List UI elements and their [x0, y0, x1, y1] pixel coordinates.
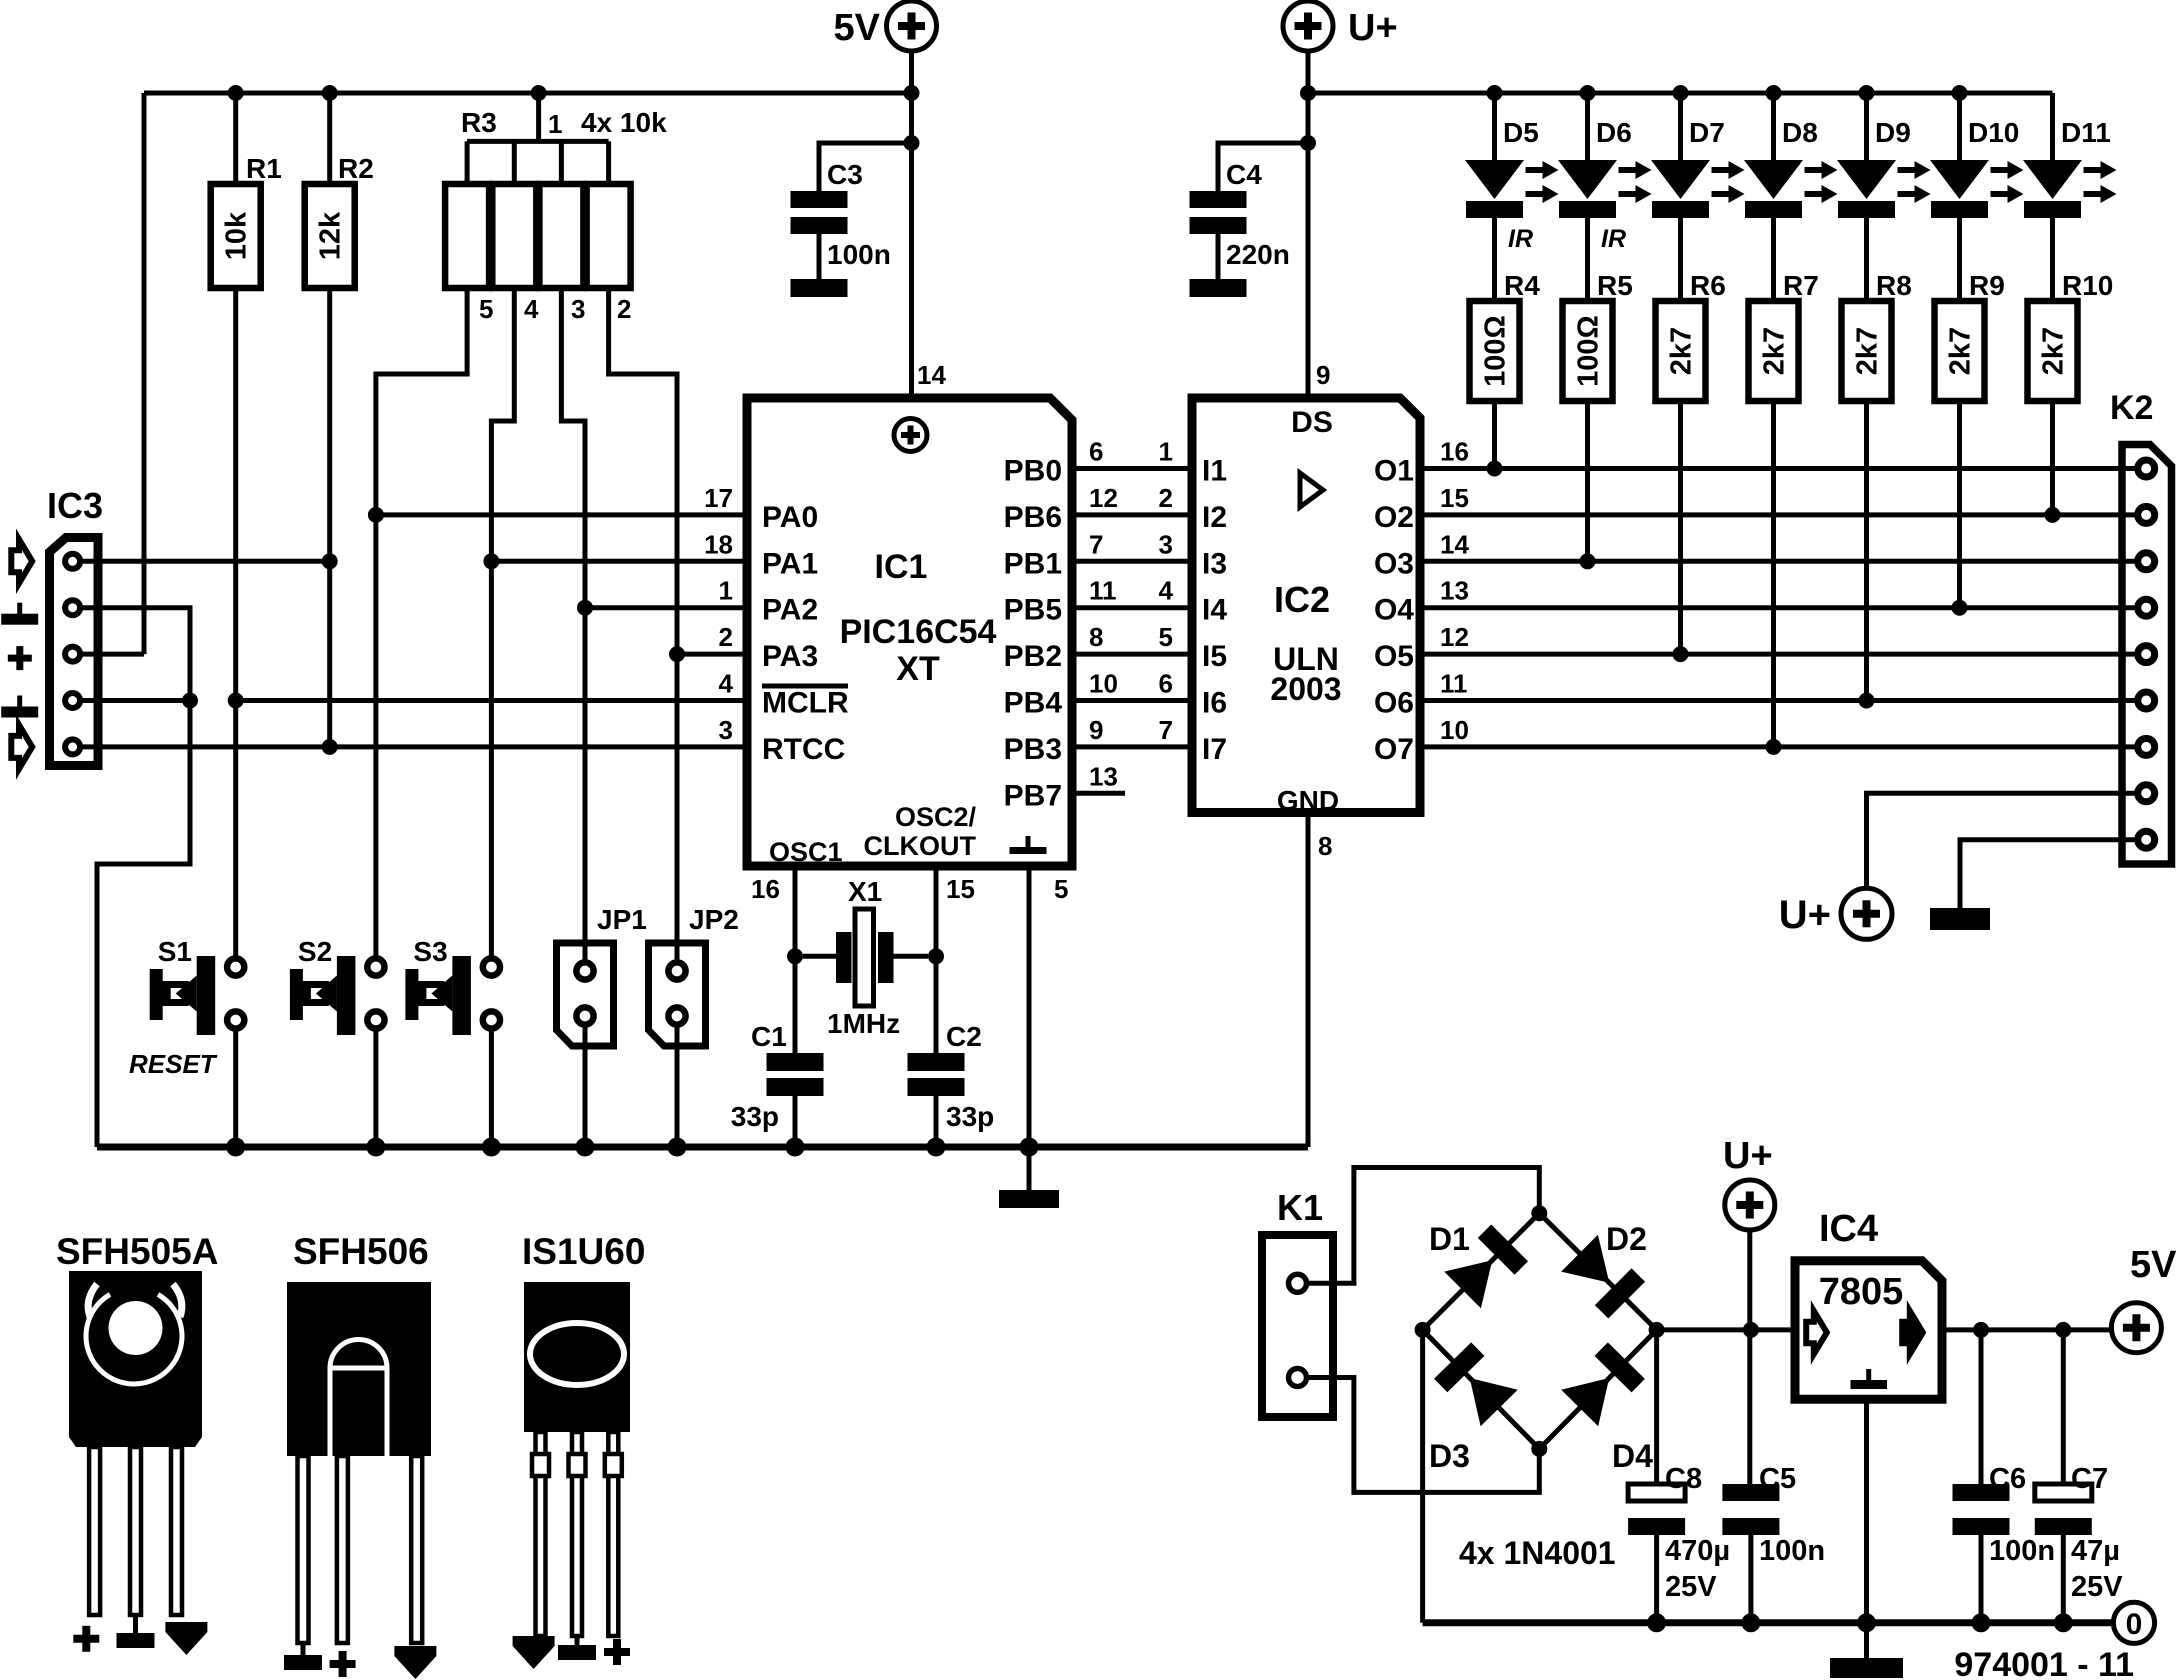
- svg-text:O1: O1: [1374, 455, 1414, 488]
- svg-text:I6: I6: [1202, 687, 1227, 720]
- junction PA3/JP2: [669, 646, 685, 662]
- svg-text:15: 15: [1440, 483, 1469, 513]
- svg-text:2003: 2003: [1270, 671, 1341, 707]
- IC3 pin 2: [65, 600, 80, 615]
- bridge node bottom: [1531, 1441, 1547, 1457]
- svg-text:PB6: PB6: [1004, 501, 1062, 534]
- K2 pin circle 9: [2138, 831, 2155, 848]
- wire O4 to K2: [1422, 605, 2138, 610]
- wire S2 top: [373, 515, 378, 958]
- svg-text:12: 12: [1089, 483, 1118, 513]
- svg-text:OSC1: OSC1: [769, 837, 843, 867]
- bridge node left: [1415, 1322, 1431, 1338]
- terminal 5V out: [2111, 1244, 2176, 1353]
- stub PB7 pin 13: [1074, 761, 1125, 793]
- svg-text:8: 8: [1089, 622, 1103, 652]
- jumper JP2: [649, 654, 739, 1147]
- wire PB to I7: [1074, 744, 1194, 749]
- junction R5 to output: [1580, 553, 1596, 569]
- svg-text:PA2: PA2: [762, 594, 818, 627]
- wire U+ down: [1747, 1230, 1752, 1484]
- wire S1 to ground rail: [233, 1028, 238, 1147]
- connector K1 label: [1277, 1187, 1323, 1228]
- svg-text:PIC16C54: PIC16C54: [840, 613, 997, 651]
- svg-text:C3: C3: [827, 159, 863, 190]
- junction R4 to output: [1487, 461, 1503, 477]
- pin numbers 10/6: [1089, 669, 1173, 699]
- wire PB to I4: [1074, 605, 1194, 610]
- svg-text:18: 18: [704, 529, 733, 559]
- capacitor C5: [1722, 1463, 1825, 1623]
- wire bridge left to ground rail: [1420, 1330, 1425, 1623]
- IR receiver module SFH506: [284, 1231, 436, 1679]
- terminal 0V: [2113, 1602, 2154, 1643]
- svg-text:5V: 5V: [2130, 1244, 2176, 1286]
- junction R2/IC3 out: [322, 553, 338, 569]
- wire IC3 pin1 to R2 net: [82, 559, 330, 564]
- svg-text:PA3: PA3: [762, 640, 818, 673]
- LED D6 (IR): [1558, 93, 1652, 301]
- svg-text:R5: R5: [1597, 270, 1633, 301]
- pin numbers 9/7: [1089, 715, 1173, 745]
- svg-text:R4: R4: [1504, 270, 1540, 301]
- svg-text:2: 2: [719, 622, 733, 652]
- svg-text:2: 2: [1159, 483, 1173, 513]
- svg-text:15: 15: [946, 874, 975, 904]
- IC IC1 PIC16C54: [747, 398, 1072, 867]
- junction R2/RTCC: [322, 739, 338, 755]
- svg-text:5V: 5V: [834, 7, 881, 49]
- svg-text:O3: O3: [1374, 547, 1414, 580]
- capacitor C8: [1628, 1330, 1730, 1623]
- resistor R2: [305, 93, 374, 747]
- IC3 pin1 direction arrow: [11, 539, 32, 583]
- LED D9 (IR): [1837, 93, 1931, 301]
- label 4x 1N4001: [1459, 1535, 1616, 1571]
- power symbol 5V: [834, 1, 937, 51]
- wire IC3 pin5 RTCC: [82, 744, 750, 749]
- svg-text:470µ: 470µ: [1665, 1535, 1730, 1567]
- resistor R4: [1470, 270, 1541, 469]
- svg-text:D8: D8: [1782, 117, 1818, 148]
- supply rail U+: [1308, 91, 2053, 96]
- svg-text:100n: 100n: [1989, 1535, 2055, 1567]
- svg-text:PB5: PB5: [1004, 594, 1062, 627]
- junction C3 tap: [904, 135, 920, 151]
- svg-text:D10: D10: [1968, 117, 2019, 148]
- diode D2: [1539, 1213, 1656, 1330]
- ground C4: [1190, 279, 1247, 297]
- junction R7 to output: [1766, 739, 1782, 755]
- diode D3: [1423, 1330, 1540, 1474]
- resistor R6: [1656, 270, 1726, 654]
- wire PB to I6: [1074, 698, 1194, 703]
- svg-text:33p: 33p: [731, 1101, 779, 1132]
- capacitor C6: [1953, 1330, 2056, 1623]
- junction R1/MCLR: [228, 693, 244, 709]
- wire S2 to ground rail: [373, 1028, 378, 1147]
- svg-text:14: 14: [917, 360, 946, 390]
- wire K2 ground pin: [1960, 840, 2138, 908]
- svg-text:I4: I4: [1202, 594, 1227, 627]
- svg-text:IR: IR: [1601, 225, 1626, 253]
- switch S2: [290, 936, 385, 1035]
- svg-text:25V: 25V: [1665, 1571, 1717, 1603]
- wire O2 to K2: [1422, 512, 2138, 517]
- svg-text:PB3: PB3: [1004, 733, 1062, 766]
- svg-text:O4: O4: [1374, 594, 1414, 627]
- svg-text:9: 9: [1316, 360, 1330, 390]
- junction U+ rail: [1300, 85, 1316, 101]
- svg-text:D1: D1: [1429, 1221, 1470, 1257]
- supply rail 5V: [144, 91, 912, 96]
- svg-text:U+: U+: [1723, 1135, 1773, 1177]
- connector K1 body: [1262, 1235, 1333, 1417]
- LED D10 (IR): [1930, 93, 2024, 301]
- svg-text:IR: IR: [1508, 225, 1533, 253]
- ground rail junction x491: [482, 1138, 501, 1157]
- svg-text:C4: C4: [1226, 159, 1262, 190]
- svg-text:2k7: 2k7: [2038, 327, 2070, 375]
- svg-text:C1: C1: [751, 1021, 787, 1052]
- ground rail junction x1029: [1020, 1138, 1039, 1157]
- svg-text:220n: 220n: [1226, 239, 1290, 270]
- junction rail D5: [1487, 85, 1503, 101]
- node R1 top: [228, 85, 244, 101]
- svg-text:4x 10k: 4x 10k: [581, 107, 667, 138]
- svg-text:S2: S2: [298, 936, 332, 967]
- svg-text:CLKOUT: CLKOUT: [864, 831, 977, 861]
- K2 pin number 15: [1440, 483, 1469, 513]
- IR receiver module SFH505A: [56, 1231, 218, 1655]
- svg-text:2: 2: [617, 294, 631, 324]
- svg-text:4: 4: [1159, 576, 1174, 606]
- capacitor C2: [908, 1021, 995, 1147]
- wire R3 pin3 to PA2: [561, 288, 585, 608]
- wire IC4 ground: [1864, 1399, 1869, 1658]
- LED D5 (IR): [1465, 93, 1559, 301]
- svg-text:O6: O6: [1374, 687, 1414, 720]
- svg-text:SFH506: SFH506: [293, 1231, 429, 1272]
- svg-text:3: 3: [571, 294, 585, 324]
- svg-text:0: 0: [2126, 1608, 2143, 1641]
- svg-text:PB2: PB2: [1004, 640, 1062, 673]
- bridge node top: [1531, 1205, 1547, 1221]
- wire K2 U+ pin: [1867, 793, 2139, 888]
- junction PA2/JP1: [577, 600, 593, 616]
- LED D8 (IR): [1744, 93, 1838, 301]
- svg-text:4x 1N4001: 4x 1N4001: [1459, 1535, 1616, 1571]
- supply rail junction x1656: [1647, 1613, 1666, 1632]
- svg-text:I2: I2: [1202, 501, 1227, 534]
- svg-text:D7: D7: [1689, 117, 1725, 148]
- K2 pin circle 2: [2138, 506, 2155, 523]
- wire IC3 pin4: [82, 698, 190, 703]
- svg-text:25V: 25V: [2071, 1571, 2123, 1603]
- K2 pin circle 8: [2138, 785, 2155, 802]
- wire rail left end down to IC3 pin3: [142, 93, 147, 654]
- svg-text:C2: C2: [946, 1021, 982, 1052]
- svg-text:K1: K1: [1277, 1187, 1323, 1228]
- junction IC3 gnd/pin4: [182, 693, 198, 709]
- svg-text:7805: 7805: [1819, 1271, 1904, 1313]
- svg-text:16: 16: [751, 874, 780, 904]
- ground K2: [1930, 908, 1990, 930]
- svg-text:100n: 100n: [1759, 1535, 1825, 1567]
- svg-text:D5: D5: [1503, 117, 1539, 148]
- wire O5 to K2: [1422, 652, 2138, 657]
- IC3 pin3 plus mark: [8, 646, 32, 670]
- K2 pin circle 6: [2138, 692, 2155, 709]
- pin numbers 11/4: [1089, 576, 1174, 606]
- svg-text:O5: O5: [1374, 640, 1414, 673]
- svg-text:4: 4: [524, 294, 539, 324]
- ground rail junction x936: [927, 1138, 946, 1157]
- resistor network R3 label: [461, 107, 667, 139]
- K2 pin number 11: [1440, 669, 1468, 699]
- svg-text:GND: GND: [1277, 785, 1339, 816]
- IC3 pin5 direction arrow: [11, 725, 32, 769]
- junction R6 to output: [1673, 646, 1689, 662]
- svg-text:D2: D2: [1606, 1221, 1647, 1257]
- power symbol U+ (supply): [1723, 1135, 1775, 1230]
- ground C3: [791, 279, 848, 297]
- svg-text:D4: D4: [1612, 1438, 1653, 1474]
- svg-text:PB7: PB7: [1004, 779, 1062, 812]
- svg-text:MCLR: MCLR: [762, 687, 849, 720]
- diode D1: [1423, 1213, 1540, 1330]
- K2 pin number 13: [1440, 576, 1469, 606]
- diode D4: [1539, 1330, 1656, 1474]
- svg-text:C7: C7: [2071, 1463, 2108, 1495]
- ground rail junction x585: [576, 1138, 595, 1157]
- connector K2 body: [2122, 445, 2172, 865]
- pin numbers 7/3: [1089, 529, 1173, 559]
- svg-text:6: 6: [1159, 669, 1173, 699]
- junction C4 tap: [1300, 135, 1316, 151]
- svg-text:JP1: JP1: [597, 904, 647, 935]
- wire PA3: [677, 652, 750, 657]
- LED D7 (IR): [1651, 93, 1745, 301]
- K1 pin 2: [1289, 1369, 1307, 1387]
- svg-text:I5: I5: [1202, 640, 1227, 673]
- svg-text:I1: I1: [1202, 455, 1227, 488]
- svg-text:PB4: PB4: [1004, 687, 1063, 720]
- wire S3 to ground rail: [489, 1028, 494, 1147]
- svg-text:974001 - 11: 974001 - 11: [1954, 1646, 2134, 1680]
- svg-text:5: 5: [1159, 622, 1173, 652]
- svg-text:4: 4: [719, 669, 734, 699]
- K2 pin number 16: [1440, 437, 1469, 467]
- svg-text:R2: R2: [338, 153, 374, 184]
- IC3 pin 4: [65, 693, 80, 708]
- ground rail junction x677: [668, 1138, 687, 1157]
- svg-text:100Ω: 100Ω: [1573, 315, 1605, 387]
- K2 pin number 14: [1440, 529, 1469, 559]
- wire U+ supply to IC2 pin9: [1306, 51, 1311, 398]
- node R2 top: [322, 85, 338, 101]
- svg-text:IC2: IC2: [1274, 579, 1330, 620]
- IC3 pin 3: [65, 647, 80, 662]
- LED D11 (IR): [2023, 93, 2117, 301]
- junction rail D10: [1952, 85, 1968, 101]
- junction U+ column: [1743, 1322, 1759, 1338]
- connector IC3 label: [47, 485, 103, 526]
- svg-text:11: 11: [1440, 669, 1468, 699]
- wire O6 to K2: [1422, 698, 2138, 703]
- svg-text:S3: S3: [413, 936, 447, 967]
- resistor R8: [1842, 270, 1912, 701]
- resistor network R3 (4x 10k): [445, 93, 630, 288]
- switch S3: [405, 936, 500, 1035]
- junction R9 to output: [1952, 600, 1968, 616]
- svg-text:5: 5: [479, 294, 493, 324]
- svg-text:U+: U+: [1348, 7, 1398, 49]
- wire PA0: [376, 512, 750, 517]
- wire pin 5 to ground: [1029, 864, 1068, 1190]
- svg-text:PA1: PA1: [762, 547, 818, 580]
- switch S1 (RESET): [129, 936, 244, 1079]
- wire OSC2 pin 15: [936, 864, 975, 1053]
- svg-text:DS: DS: [1291, 406, 1333, 439]
- crystal X1: [803, 876, 928, 1039]
- wire K1 pin1 to bridge top: [1306, 1168, 1539, 1284]
- connector K2 label: [2110, 389, 2153, 427]
- capacitor C3: [791, 143, 912, 279]
- svg-text:1MHz: 1MHz: [827, 1008, 900, 1039]
- K2 pin circle 3: [2138, 553, 2155, 570]
- svg-text:2k7: 2k7: [1666, 327, 1698, 375]
- svg-text:O7: O7: [1374, 733, 1414, 766]
- svg-text:RTCC: RTCC: [762, 733, 845, 766]
- svg-text:PB0: PB0: [1004, 455, 1062, 488]
- svg-text:8: 8: [1318, 831, 1332, 861]
- svg-text:13: 13: [1089, 761, 1118, 791]
- svg-text:C8: C8: [1665, 1463, 1702, 1495]
- IC3 pin 1: [65, 554, 80, 569]
- wire PA2: [585, 605, 750, 610]
- svg-text:PB1: PB1: [1004, 547, 1062, 580]
- IC IC2 ULN2003: [1192, 398, 1420, 816]
- power symbol U+: [1283, 1, 1398, 51]
- ground symbol main: [999, 1190, 1059, 1208]
- svg-text:1: 1: [1159, 437, 1173, 467]
- svg-text:U+: U+: [1779, 893, 1831, 937]
- svg-text:2k7: 2k7: [1852, 327, 1884, 375]
- svg-text:JP2: JP2: [689, 904, 739, 935]
- junction R8 to output: [1859, 693, 1875, 709]
- wire IC3 pin3 to 5V rail: [82, 652, 144, 657]
- junction R10 to output: [2045, 507, 2061, 523]
- wire R3 pin2 to PA3: [609, 288, 677, 654]
- K2 pin circle 7: [2138, 738, 2155, 755]
- wire PB to I3: [1074, 559, 1194, 564]
- svg-text:PA0: PA0: [762, 501, 818, 534]
- svg-text:14: 14: [1440, 529, 1469, 559]
- K2 pin number 10: [1440, 715, 1469, 745]
- IC1 left pin numbers: [704, 483, 733, 745]
- supply rail junction x2063: [2054, 1613, 2073, 1632]
- IC1 pin 14 label: [917, 360, 946, 390]
- svg-text:100n: 100n: [827, 239, 891, 270]
- wire S3 top: [489, 561, 494, 958]
- svg-text:D11: D11: [2061, 117, 2111, 148]
- K2 pin circle 1: [2138, 460, 2155, 477]
- svg-text:R8: R8: [1876, 270, 1912, 301]
- svg-text:R9: R9: [1969, 270, 2005, 301]
- svg-text:D3: D3: [1429, 1438, 1470, 1474]
- supply ground rail: [1423, 1619, 2114, 1626]
- wire IC4 output: [1942, 1327, 2111, 1332]
- ground symbol IC4: [1830, 1658, 1903, 1678]
- svg-text:C5: C5: [1759, 1463, 1796, 1495]
- wire O1 to K2: [1422, 466, 2138, 471]
- svg-text:9: 9: [1089, 715, 1103, 745]
- R3 pin numbers: [479, 294, 631, 324]
- svg-text:2k7: 2k7: [1945, 327, 1977, 375]
- IC3 pin2 ground mark: [1, 603, 38, 625]
- capacitor C1: [731, 1021, 824, 1147]
- wire PA1: [491, 559, 750, 564]
- pin numbers 12/2: [1089, 483, 1173, 513]
- resistor R9: [1935, 270, 2005, 608]
- ground rail junction x795: [786, 1138, 805, 1157]
- junction PA1/S3: [483, 553, 499, 569]
- junction rail D7: [1673, 85, 1689, 101]
- node R3 top: [531, 85, 547, 101]
- K1 pin 1: [1289, 1274, 1307, 1292]
- svg-text:2k7: 2k7: [1759, 327, 1791, 375]
- wire R3 pin4 to PA1: [491, 288, 514, 561]
- IC3 pin 5: [65, 739, 80, 754]
- svg-text:10: 10: [1440, 715, 1469, 745]
- svg-text:O2: O2: [1374, 501, 1414, 534]
- svg-text:12k: 12k: [315, 211, 347, 260]
- connector IC3 body: [50, 538, 99, 766]
- svg-text:3: 3: [719, 715, 733, 745]
- junction X1 left: [787, 948, 803, 964]
- pin numbers 6/1: [1089, 437, 1173, 467]
- junction X1 right: [928, 948, 944, 964]
- jumper JP1: [557, 608, 647, 1147]
- wire PB to I1: [1074, 466, 1194, 471]
- supply rail junction x1981: [1972, 1613, 1991, 1632]
- svg-text:D9: D9: [1875, 117, 1911, 148]
- svg-text:IC3: IC3: [47, 485, 103, 526]
- svg-text:10: 10: [1089, 669, 1118, 699]
- svg-text:IS1U60: IS1U60: [522, 1231, 645, 1272]
- capacitor C7: [2035, 1330, 2123, 1623]
- svg-text:13: 13: [1440, 576, 1469, 606]
- ground rail junction x375: [366, 1138, 385, 1157]
- wire MCLR: [236, 698, 750, 703]
- svg-text:IC4: IC4: [1819, 1208, 1878, 1250]
- svg-text:11: 11: [1089, 576, 1117, 606]
- wire IC3 pin2 to ground drop: [82, 608, 190, 1147]
- ground rail junction x235: [226, 1138, 245, 1157]
- capacitor C4: [1190, 143, 1309, 279]
- svg-text:10k: 10k: [221, 211, 253, 260]
- junction 5V rail/feed: [904, 85, 920, 101]
- wire 5V supply to rail: [909, 51, 914, 398]
- junction PA0/S2: [368, 507, 384, 523]
- svg-text:R10: R10: [2062, 270, 2113, 301]
- wire R3 pin5 to PA0: [376, 288, 467, 515]
- svg-text:17: 17: [704, 483, 733, 513]
- IC2 pin 9 label: [1316, 360, 1330, 390]
- resistor R10: [2028, 270, 2114, 515]
- svg-text:X1: X1: [848, 876, 882, 907]
